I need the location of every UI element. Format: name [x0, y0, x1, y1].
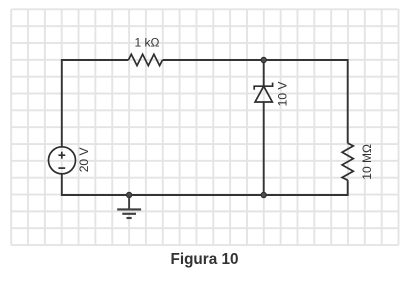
wire middle branch bottom: [263, 102, 265, 195]
junction node at top of zener branch: [261, 57, 266, 62]
plus sign: [58, 152, 65, 159]
svg-text:10 V: 10 V: [276, 82, 290, 107]
junction node at bottom of zener branch: [261, 192, 266, 197]
wire top rail left + left rail down to source top: [62, 60, 129, 147]
wire middle branch top: [263, 60, 265, 86]
wire source bottom + bottom rail + right rail up to R2 bottom: [62, 174, 348, 195]
zener diode D1 cathode bar with bent ends: [254, 83, 272, 90]
resistor R2 10 MOhm (vertical zigzag): [342, 143, 353, 180]
voltage source V1 circle: [49, 147, 76, 174]
svg-text:10 MΩ: 10 MΩ: [360, 144, 374, 180]
wire top rail right + right rail down to R2 top: [163, 60, 348, 143]
ground bar 3: [127, 217, 132, 219]
ground bar 2: [122, 213, 136, 215]
minus sign: [58, 167, 65, 169]
svg-text:Figura 10: Figura 10: [170, 251, 238, 268]
zener diode D1 triangle: [255, 86, 272, 102]
graph-paper background (decorative): [11, 9, 398, 245]
junction node at ground: [127, 192, 132, 197]
resistor R1 1 kOhm (horizontal zigzag): [128, 54, 162, 65]
svg-text:1 kΩ: 1 kΩ: [135, 36, 160, 50]
ground bar 1: [117, 208, 141, 210]
ground stem: [128, 195, 130, 209]
svg-text:20 V: 20 V: [77, 148, 91, 173]
